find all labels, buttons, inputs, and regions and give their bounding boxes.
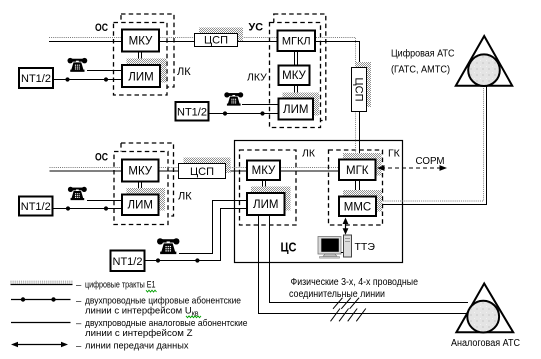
svg-text:МГК: МГК <box>346 165 369 177</box>
svg-text:ЛКУ: ЛКУ <box>247 72 267 84</box>
svg-text:ЛИМ: ЛИМ <box>253 199 278 211</box>
svg-text:линии с интерфейсом Z: линии с интерфейсом Z <box>85 328 193 339</box>
svg-text:линии передачи данных: линии передачи данных <box>85 340 189 351</box>
svg-text:соединительные линии: соединительные линии <box>289 289 385 300</box>
svg-text:УС: УС <box>249 22 264 34</box>
svg-text:ЛК: ЛК <box>177 66 191 78</box>
svg-text:ЛИМ: ЛИМ <box>128 72 153 84</box>
svg-text:МКУ: МКУ <box>252 165 276 177</box>
svg-text:Аналоговая АТС: Аналоговая АТС <box>451 338 520 349</box>
svg-text:–: – <box>76 295 82 306</box>
svg-text:NT1/2: NT1/2 <box>21 73 51 85</box>
svg-text:ЦСП: ЦСП <box>190 166 214 178</box>
svg-text:–: – <box>76 318 82 329</box>
svg-text:ОС: ОС <box>95 22 108 34</box>
svg-text:линии с интерфейсом Uкв: линии с интерфейсом Uкв <box>85 305 199 317</box>
svg-text:ЦСП: ЦСП <box>353 78 365 102</box>
svg-text:ЛК: ЛК <box>178 191 192 203</box>
svg-text:ГК: ГК <box>388 147 401 159</box>
svg-text:Цифровая АТС: Цифровая АТС <box>391 48 455 60</box>
svg-text:МКУ: МКУ <box>129 36 153 48</box>
svg-text:(ГАТС, АМТС): (ГАТС, АМТС) <box>391 65 450 76</box>
svg-text:NT1/2: NT1/2 <box>113 256 143 268</box>
svg-text:СОРМ: СОРМ <box>416 156 445 167</box>
svg-text:ЛИМ: ЛИМ <box>128 200 153 212</box>
svg-text:–: – <box>76 340 82 351</box>
svg-text:ТТЭ: ТТЭ <box>355 241 376 253</box>
svg-text:NT1/2: NT1/2 <box>21 201 51 213</box>
svg-text:ММС: ММС <box>344 201 371 213</box>
svg-text:–: – <box>76 280 82 291</box>
svg-text:МГКЛ: МГКЛ <box>282 36 311 48</box>
svg-text:ЦС: ЦС <box>281 240 298 255</box>
svg-text:ЛИМ: ЛИМ <box>283 104 308 116</box>
svg-text:NT1/2: NT1/2 <box>177 106 207 118</box>
svg-text:Физические 3-х, 4-х проводные: Физические 3-х, 4-х проводные <box>291 277 419 288</box>
svg-text:ОС: ОС <box>95 152 108 164</box>
svg-text:цифровые тракты Е1: цифровые тракты Е1 <box>85 280 156 291</box>
svg-text:ЦСП: ЦСП <box>204 35 228 47</box>
svg-text:МКУ: МКУ <box>128 166 152 178</box>
svg-text:МКУ: МКУ <box>282 70 306 82</box>
svg-text:ЛК: ЛК <box>302 148 316 160</box>
